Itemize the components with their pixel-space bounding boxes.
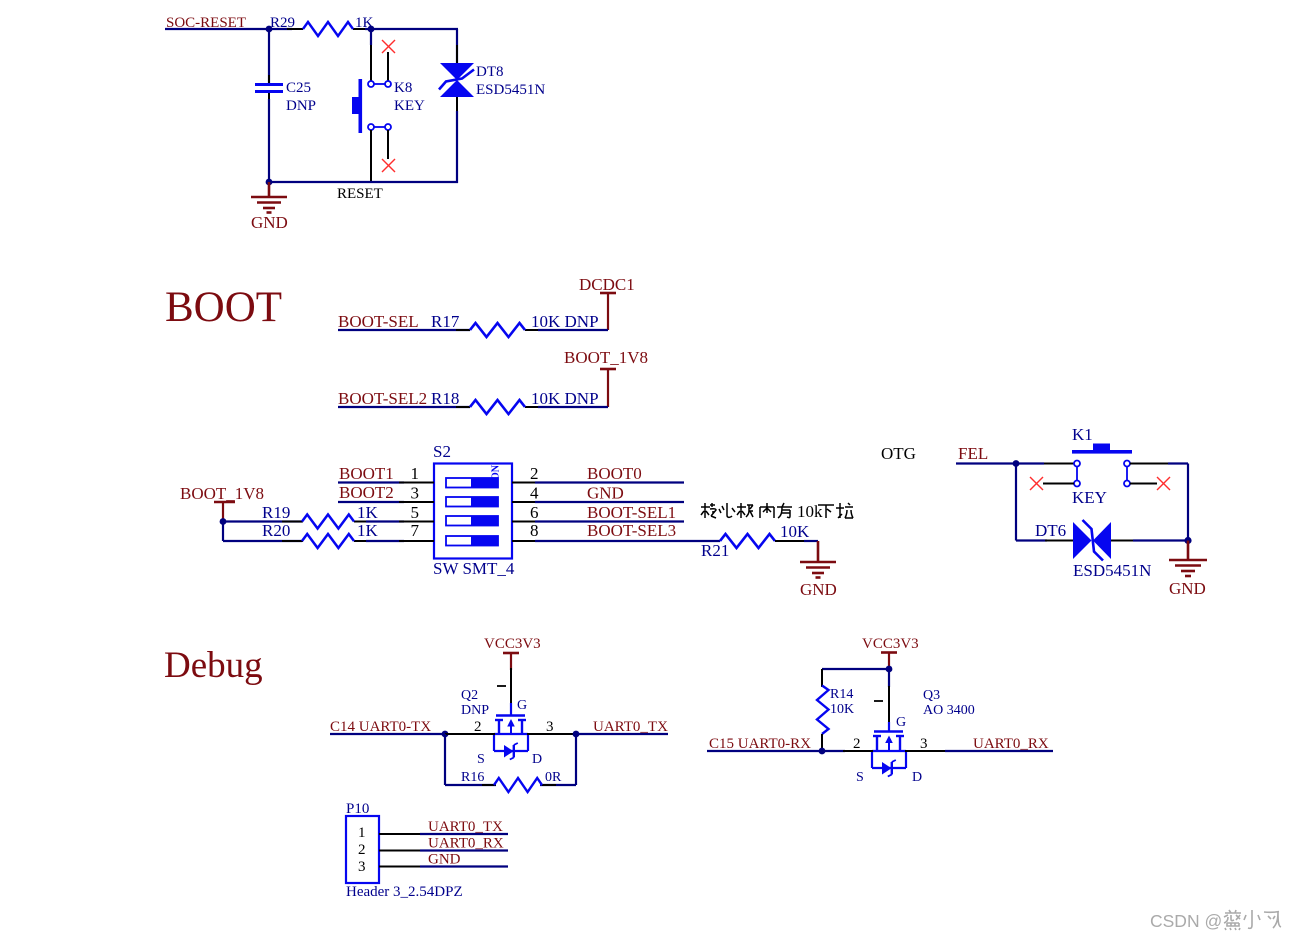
svg-text:K8: K8 (394, 80, 412, 96)
svg-text:Q3: Q3 (923, 688, 940, 703)
svg-text:3: 3 (358, 859, 366, 875)
svg-text:BOOT_1V8: BOOT_1V8 (564, 348, 648, 367)
svg-text:VCC3V3: VCC3V3 (484, 636, 541, 652)
wire GND (P10) (420, 865, 508, 867)
svg-text:S: S (477, 752, 485, 767)
svg-text:R29: R29 (270, 15, 295, 31)
svg-text:R17: R17 (431, 312, 460, 331)
svg-text:DNP: DNP (286, 98, 316, 114)
svg-text:10K: 10K (830, 702, 854, 717)
svg-text:ON: ON (491, 464, 502, 480)
svg-text:GND: GND (1169, 579, 1206, 598)
svg-text:AO 3400: AO 3400 (923, 703, 975, 718)
wire R17 to DCDC1 (538, 329, 608, 331)
ground GND (K1) (1169, 541, 1207, 577)
pin 1 dash Q3 (874, 700, 883, 702)
annotation core board pulldown (Chinese) (701, 502, 853, 521)
switch K8 KEY (352, 29, 425, 133)
wire BOOT1 net (338, 481, 404, 483)
node junction R14/Q3 source (819, 748, 826, 755)
svg-text:3: 3 (546, 719, 554, 735)
svg-text:R20: R20 (262, 521, 290, 540)
svg-text:6: 6 (530, 503, 539, 522)
svg-text:CSDN @: CSDN @ (1150, 911, 1222, 931)
svg-text:1K: 1K (357, 521, 379, 540)
svg-text:UART0_TX: UART0_TX (428, 819, 503, 835)
svg-text:G: G (517, 698, 527, 713)
connector P10 Header 3 (346, 801, 463, 900)
no-connect X right of K1 (1157, 477, 1170, 490)
wire R18 to BOOT_1V8 (538, 406, 608, 408)
wire R29 to DT8 top (365, 28, 458, 30)
wire GND net (535, 501, 684, 503)
resistor R14 10K (817, 669, 854, 751)
wire C14 UART0-TX net (330, 733, 445, 735)
switch K1 KEY (1044, 425, 1132, 507)
wire X to K1 lower-left pin (1043, 483, 1074, 485)
svg-text:BOOT1: BOOT1 (339, 464, 394, 483)
svg-text:R21: R21 (701, 541, 729, 560)
svg-text:C15 UART0-RX: C15 UART0-RX (709, 736, 811, 752)
wire BOOT-SEL3 net to R21 (535, 540, 720, 542)
wire RESET bottom rail (269, 181, 458, 183)
svg-text:Debug: Debug (164, 645, 263, 686)
watermark CSDN (1150, 910, 1281, 931)
resistor R19 1K (262, 503, 379, 529)
svg-text:BOOT: BOOT (165, 284, 282, 331)
node junction VCC3V3/R14 (886, 666, 893, 673)
svg-text:7: 7 (411, 521, 420, 540)
wire UART0_RX (P10) (420, 849, 508, 851)
svg-text:1: 1 (358, 825, 366, 841)
svg-text:UART0_RX: UART0_RX (973, 736, 1049, 752)
resistor R21 10K (701, 522, 810, 560)
node junction right of Q2 (573, 731, 580, 738)
node junction BOOT_1V8/R19 (220, 518, 227, 525)
svg-text:10K DNP: 10K DNP (531, 312, 599, 331)
wire Q3 gate (888, 669, 890, 731)
svg-text:10K: 10K (780, 522, 810, 541)
svg-text:R18: R18 (431, 389, 459, 408)
svg-text:3: 3 (920, 736, 928, 752)
svg-text:8: 8 (530, 521, 539, 540)
wire C15 UART0-RX net (707, 750, 845, 752)
svg-text:BOOT0: BOOT0 (587, 464, 642, 483)
wire DT8 branch vertical (456, 29, 458, 183)
svg-text:R16: R16 (461, 770, 484, 785)
wire SOC-RESET net (165, 28, 292, 30)
svg-text:K1: K1 (1072, 425, 1093, 444)
no-connect X top of K8 (382, 40, 395, 53)
svg-text:FEL: FEL (958, 444, 988, 463)
svg-text:1: 1 (411, 464, 420, 483)
wire junction to Q2 source (445, 733, 495, 735)
wire junction down to C25 (268, 29, 270, 83)
wire BOOT-SEL1 net (535, 520, 684, 522)
svg-text:BOOT2: BOOT2 (339, 483, 394, 502)
svg-text:GND: GND (251, 213, 288, 232)
svg-text:BOOT-SEL: BOOT-SEL (338, 312, 419, 331)
wire K1 lower-right pin to X (1130, 483, 1157, 485)
wire K8 lower pins (371, 130, 388, 182)
svg-text:0R: 0R (545, 770, 562, 785)
node junction R29/K8 (368, 26, 375, 33)
resistor R18 10K DNP (431, 389, 599, 414)
svg-text:Header 3_2.54DPZ: Header 3_2.54DPZ (346, 884, 463, 900)
wire junction to Q3 source (843, 750, 873, 752)
TVS diode DT8 ESD5451N (439, 63, 545, 98)
svg-text:D: D (912, 770, 922, 785)
resistor R29 1K (270, 15, 374, 36)
wire R16 bypass loop (445, 734, 576, 785)
wire Q3 drain to UART0_RX (905, 750, 1053, 752)
svg-text:S2: S2 (433, 442, 451, 461)
svg-text:VCC3V3: VCC3V3 (862, 636, 919, 652)
wire UART0_TX (P10) (420, 833, 508, 835)
wire VCC3V3 to R14 (822, 668, 889, 670)
transistor Q2 DNP (461, 688, 554, 767)
svg-text:C14 UART0-TX: C14 UART0-TX (330, 719, 431, 735)
svg-text:3: 3 (411, 484, 420, 503)
wire C25 to ground rail (268, 99, 270, 182)
ground GND (R21) (800, 541, 836, 578)
wire K1 right to corner (1130, 464, 1188, 541)
wire FEL net (956, 462, 1044, 464)
power port DCDC1 (579, 275, 635, 330)
svg-text:R19: R19 (262, 503, 290, 522)
svg-text:2: 2 (358, 842, 366, 858)
wire UART0_TX net (576, 733, 668, 735)
svg-text:UART0_TX: UART0_TX (593, 719, 668, 735)
svg-text:5: 5 (411, 503, 420, 522)
resistor R16 0R (461, 770, 562, 792)
node junction left of Q2 (442, 731, 449, 738)
wire Q2 drain to junction (527, 733, 576, 735)
svg-text:DCDC1: DCDC1 (579, 275, 635, 294)
transistor Q3 AO 3400 (853, 688, 975, 785)
svg-text:DT6: DT6 (1035, 521, 1066, 540)
power port VCC3V3 (Q3) (862, 636, 919, 670)
resistor R17 10K DNP (431, 312, 599, 337)
svg-text:GND: GND (800, 580, 837, 599)
wire BOOT-SEL net (338, 329, 470, 331)
wire BOOT2 net (338, 501, 404, 503)
svg-text:S: S (856, 770, 864, 785)
pin 1 dash Q2 (497, 685, 506, 687)
no-connect X left of K1 (1030, 477, 1043, 490)
svg-text:BOOT-SEL2: BOOT-SEL2 (338, 389, 427, 408)
DIP switch S2 SW SMT_4 (399, 442, 539, 578)
ground GND (reset) (251, 182, 287, 213)
no-connect X bottom of K8 (382, 159, 395, 172)
svg-text:2: 2 (474, 719, 482, 735)
svg-text:OTG: OTG (881, 444, 916, 463)
capacitor C25 DNP (255, 75, 316, 114)
svg-text:KEY: KEY (1072, 488, 1107, 507)
TVS diode DT6 ESD5451N (1035, 520, 1151, 580)
svg-text:R14: R14 (830, 687, 853, 702)
svg-text:SW SMT_4: SW SMT_4 (433, 559, 515, 578)
svg-text:BOOT_1V8: BOOT_1V8 (180, 484, 264, 503)
power port BOOT_1V8 (left) (180, 484, 264, 522)
wire R19 to pin5 (366, 520, 404, 522)
svg-text:BOOT-SEL1: BOOT-SEL1 (587, 503, 676, 522)
wire R21 to GND (804, 540, 818, 542)
wire FEL down to DT6 (1016, 464, 1073, 541)
svg-text:2: 2 (530, 464, 539, 483)
node junction at GND rail (266, 179, 273, 186)
svg-text:P10: P10 (346, 801, 369, 817)
svg-text:ESD5451N: ESD5451N (476, 82, 545, 98)
svg-text:BOOT-SEL3: BOOT-SEL3 (587, 521, 676, 540)
svg-text:10K DNP: 10K DNP (531, 389, 599, 408)
svg-text:C25: C25 (286, 80, 311, 96)
power port VCC3V3 (Q2) (484, 636, 541, 670)
svg-text:GND: GND (428, 852, 461, 868)
svg-text:Q2: Q2 (461, 688, 478, 703)
svg-text:RESET: RESET (337, 186, 383, 202)
wire R20 to pin7 (366, 540, 404, 542)
svg-text:D: D (532, 752, 542, 767)
wire BOOT-SEL2 net (338, 406, 470, 408)
svg-text:UART0_RX: UART0_RX (428, 836, 504, 852)
svg-text:2: 2 (853, 736, 861, 752)
svg-text:DT8: DT8 (476, 64, 504, 80)
resistor R20 1K (262, 521, 379, 548)
wire DT6 to GND (1111, 540, 1188, 542)
svg-text:ESD5451N: ESD5451N (1073, 561, 1151, 580)
wire VCC3V3 to Q2 gate (510, 668, 512, 705)
wire BOOT0 net (535, 481, 684, 483)
svg-text:KEY: KEY (394, 98, 425, 114)
node junction FEL (1013, 460, 1020, 467)
node junction R29/C25 (266, 26, 273, 33)
svg-text:DNP: DNP (461, 703, 489, 718)
svg-text:G: G (896, 715, 906, 730)
wire BOOT_1V8 to R19/R20 (223, 522, 302, 542)
svg-text:1K: 1K (357, 503, 379, 522)
svg-text:4: 4 (530, 484, 539, 503)
power port BOOT_1V8 (R18) (564, 348, 648, 407)
node junction DT6/K1/GND (1184, 537, 1191, 544)
svg-text:GND: GND (587, 484, 624, 503)
